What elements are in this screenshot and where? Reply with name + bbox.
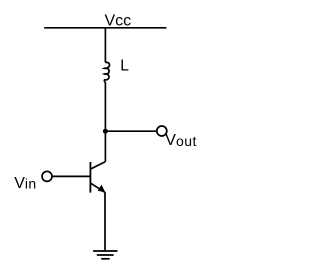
svg-text:L: L <box>120 58 129 75</box>
ground bar 3 <box>101 258 109 260</box>
transistor Q1 collector diagonal <box>91 162 105 169</box>
power rail Vcc <box>44 27 166 29</box>
svg-text:Vcc: Vcc <box>105 13 132 30</box>
wire collector to node <box>104 131 106 162</box>
ground bar 1 <box>93 250 117 252</box>
svg-text:Vin: Vin <box>14 175 36 192</box>
terminal Vin circle <box>42 171 52 181</box>
transistor Q1 base bar <box>89 162 91 193</box>
node junction dot <box>103 129 108 134</box>
svg-text:Vout: Vout <box>165 132 196 149</box>
transistor Q1 emitter arrowhead <box>98 185 105 192</box>
wire emitter to ground <box>104 192 106 251</box>
ground bar 2 <box>97 254 114 256</box>
wire node to Vout terminal <box>105 130 156 132</box>
inductor L1 coil <box>104 62 109 82</box>
wire inductor to node <box>104 82 106 131</box>
transistor Q1 emitter diagonal <box>91 183 105 192</box>
wire Vin terminal to base <box>52 175 89 177</box>
wire rail to inductor <box>104 28 106 63</box>
terminal Vout circle <box>157 126 167 136</box>
